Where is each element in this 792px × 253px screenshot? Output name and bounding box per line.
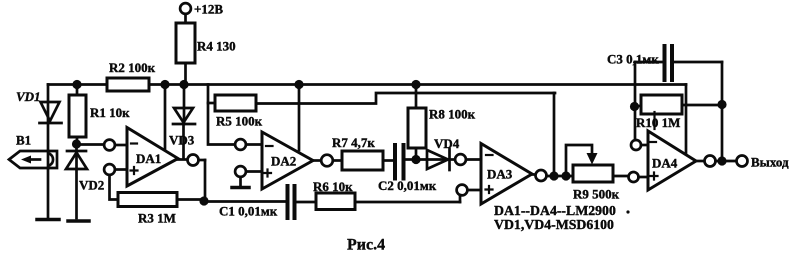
DA1 power line [164, 85, 167, 151]
diode VD1 [40, 85, 62, 152]
svg-text:C3 0,1мк: C3 0,1мк [607, 52, 659, 67]
node R8 top tap [411, 80, 420, 89]
resistor R3 [118, 193, 200, 207]
wire top bus left segment [48, 83, 107, 86]
R9 wiper arrowhead [587, 153, 598, 165]
node R10 left [630, 102, 639, 111]
microphone B1 [9, 151, 57, 168]
capacitor C2 [395, 145, 411, 179]
wire node to C1 [204, 200, 285, 203]
label +12V [194, 2, 223, 17]
label R1 [90, 105, 130, 120]
node R10 right [717, 100, 726, 109]
label VD4 [434, 136, 460, 151]
R9 wiper arm [566, 145, 592, 176]
svg-text:C1 0,01мк: C1 0,01мк [219, 204, 278, 219]
terminal output [737, 156, 748, 167]
DA2 output pin [313, 155, 342, 167]
wire node to DA1 minus input [77, 143, 105, 146]
svg-text:R3 1M: R3 1M [138, 211, 176, 226]
microphone B1 arrow head [21, 156, 31, 164]
node DA1 feedback [199, 196, 208, 205]
capacitor C3 [635, 46, 722, 80]
label R2 [109, 60, 156, 75]
svg-text:VD1: VD1 [16, 89, 41, 104]
svg-text:R7 4,7к: R7 4,7к [332, 135, 375, 150]
label R6 [313, 179, 353, 194]
svg-text:VD4: VD4 [434, 136, 460, 151]
svg-text:DA1--DA4--LM2900: DA1--DA4--LM2900 [494, 203, 616, 218]
ground under VD2 [68, 219, 89, 223]
label B1 [16, 133, 31, 148]
op-amp DA2 [262, 132, 313, 189]
diode VD2 [66, 144, 87, 218]
diode VD4 [416, 149, 455, 170]
resistor R5 [215, 95, 256, 111]
resistor R2 [107, 78, 149, 91]
wire DA1 output down to feedback node [204, 160, 207, 201]
svg-text:DA3: DA3 [487, 167, 513, 182]
label VD2 [79, 178, 104, 193]
node DA2 power tap [294, 80, 303, 89]
label R3 [138, 211, 176, 226]
svg-text:VD1,VD4-MSD6100: VD1,VD4-MSD6100 [494, 217, 614, 232]
op-amp DA3 [481, 144, 532, 205]
wire top bus main segment [149, 83, 686, 86]
wire C3 right vertical [721, 62, 724, 161]
label VD1 [16, 89, 41, 104]
svg-text:R10 1M: R10 1M [636, 115, 680, 130]
svg-text:Выход: Выход [751, 155, 789, 170]
node R9 wiper [561, 171, 570, 180]
DA1 minus input pin [104, 140, 137, 151]
wire DA3 output feedback up [553, 93, 556, 176]
variable resistor R9 [573, 165, 628, 182]
svg-text:Рис.4: Рис.4 [347, 237, 385, 253]
resistor R7 [342, 151, 392, 170]
label output [751, 155, 789, 170]
label R5 [216, 114, 263, 129]
node C2/R8/VD4 [411, 155, 420, 164]
DA2 minus input pin [235, 139, 272, 150]
label DA1 [136, 151, 161, 166]
caption [347, 237, 385, 253]
DA3 minus input pin [455, 154, 492, 165]
label R9 [573, 187, 620, 202]
DA4 minus input pin [631, 140, 656, 150]
svg-text:R1 10к: R1 10к [90, 105, 130, 120]
DA2 plus input ground [232, 177, 249, 188]
DA4 power line from bus corner [685, 85, 688, 154]
node output [717, 156, 726, 165]
resistor R8 [408, 85, 426, 160]
svg-text:+12В: +12В [194, 2, 223, 17]
label C2 [378, 178, 437, 193]
svg-text:R5 100к: R5 100к [216, 114, 263, 129]
DA1 output pin [178, 155, 205, 166]
DA2 power line [298, 85, 301, 151]
wire R5 left bracket to bus and DA2 minus [208, 85, 235, 145]
label R10 [636, 115, 680, 130]
svg-text:R9 500к: R9 500к [573, 187, 620, 202]
svg-text:R4 130: R4 130 [197, 39, 236, 54]
svg-text:VD2: VD2 [79, 178, 104, 193]
diode VD3 [173, 85, 195, 160]
label R7 [332, 135, 375, 150]
resistor R6 [316, 193, 460, 210]
svg-text:DA2: DA2 [271, 154, 296, 169]
svg-text:R6 10к: R6 10к [313, 179, 353, 194]
DA3 plus input pin [457, 185, 493, 196]
DA4 plus input pin [629, 172, 658, 182]
label DA3 [487, 167, 513, 182]
node feedback [549, 171, 558, 180]
svg-text:VD3: VD3 [169, 133, 195, 148]
text note line 2 [494, 217, 614, 232]
terminal +12V [180, 3, 191, 23]
wire B1 to ground [47, 168, 50, 217]
capacitor C1 [288, 186, 317, 218]
text note line 1 period [626, 210, 629, 213]
op-amp DA4 [648, 131, 696, 190]
label VD3 [169, 133, 195, 148]
wire R5 right feedback line [256, 93, 555, 104]
svg-text:В1: В1 [16, 133, 31, 148]
label DA2 [271, 154, 296, 169]
wire DA1 plus input down [110, 175, 119, 200]
wire C3/R10 left vertical [634, 62, 637, 140]
label C1 [219, 204, 278, 219]
op-amp DA1 [127, 128, 178, 187]
label DA4 [652, 156, 678, 171]
wire R6 to DA3 plus input [459, 195, 462, 202]
node R1 bottom / DA1 inverting input [72, 139, 81, 148]
R10 stray stroke [653, 112, 655, 129]
DA3 output pin [532, 170, 573, 181]
svg-text:DA1: DA1 [136, 151, 161, 166]
DA1 plus input pin [104, 164, 137, 175]
svg-text:R2 100к: R2 100к [109, 60, 156, 75]
text note line 1 [494, 203, 616, 218]
label C3 [607, 52, 659, 67]
DA2 plus input pin [235, 166, 271, 177]
resistor R10 [635, 95, 722, 114]
svg-text:DA4: DA4 [652, 156, 678, 171]
svg-text:R8 100к: R8 100к [429, 107, 476, 122]
node DA1 power tap [160, 80, 169, 89]
node R4/VD3 tap [179, 80, 188, 89]
svg-text:C2 0,01мк: C2 0,01мк [378, 178, 437, 193]
resistor R1 [69, 85, 86, 145]
label R4 [197, 39, 236, 54]
ground under B1 [37, 218, 59, 222]
resistor R4 [176, 23, 195, 80]
DA4 output pin [696, 156, 736, 167]
label R8 [429, 107, 476, 122]
node R1 top [72, 80, 81, 89]
